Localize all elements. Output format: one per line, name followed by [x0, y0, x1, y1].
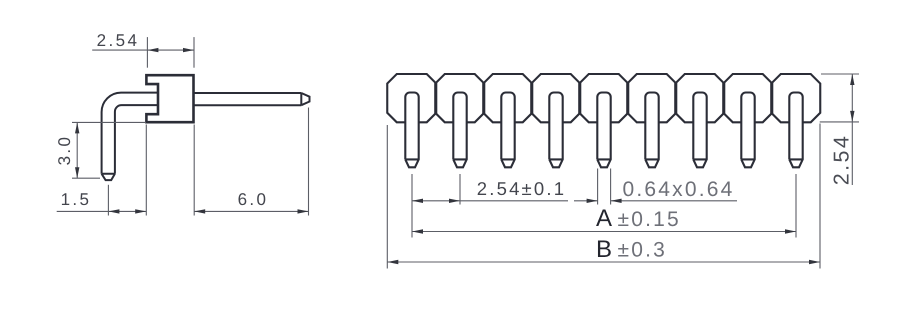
pin 4 [549, 93, 562, 168]
dimension line A [412, 231, 796, 233]
arrow A right [785, 229, 796, 233]
extension line: body left (top dim) [146, 37, 148, 68]
insulator octagon position 6 [627, 74, 676, 122]
pin header plastic body (side view) [146, 75, 193, 122]
insulator octagon position 4 [531, 74, 580, 122]
arrow 2.54 left [147, 48, 158, 52]
extension line: pin 9 center [795, 174, 797, 238]
extension line: body left down [145, 125, 147, 216]
arrow height up [850, 74, 854, 85]
svg-text:2.54: 2.54 [97, 31, 140, 50]
dimension line 1.5 [57, 210, 147, 212]
arrow 2.54 right [183, 48, 194, 52]
insulator octagon position 5 [579, 74, 628, 122]
insulator octagon position 2 [435, 74, 484, 122]
dimension line B [387, 261, 820, 263]
arrow 0.64 left (points right) [587, 199, 598, 203]
svg-text:6.0: 6.0 [238, 190, 269, 209]
arrow B left [387, 260, 398, 264]
extension line: pin tip down [308, 108, 310, 216]
arrow height down [850, 111, 854, 122]
extension line: pin 1 center [411, 174, 413, 238]
svg-text:A: A [596, 205, 612, 232]
extension line: pin 5 left edge [597, 169, 599, 205]
extension line: body right down [193, 125, 195, 216]
extension line: row bottom (height dim) [820, 121, 859, 123]
pin 6 [645, 93, 658, 168]
svg-text:B: B [596, 236, 612, 263]
extension line: body right (top dim) [193, 37, 195, 68]
arrow 0.64 right (points left) [611, 199, 622, 203]
arrow pitch right [449, 199, 460, 203]
pin 1 [405, 93, 418, 168]
dimension line 2.54 height (vertical) [851, 74, 853, 185]
arrow 1.5 right [135, 209, 146, 213]
arrow 6.0 right [298, 209, 309, 213]
extension line: pin centerline down [107, 185, 109, 216]
extension line: body bottom level (3.0 dim top ref) [72, 121, 146, 123]
arrow 3.0 down [75, 167, 79, 178]
pin 5 [597, 93, 610, 168]
arrow B right [809, 260, 820, 264]
pin 3 [501, 93, 514, 168]
extension line: row left edge [386, 125, 388, 269]
pin 8 [741, 93, 754, 168]
svg-text:3.0: 3.0 [55, 135, 74, 166]
insulator octagon position 8 [723, 74, 772, 122]
arrow 1.5 left [108, 209, 119, 213]
pin 7 [693, 93, 706, 168]
extension line: pin 2 center [459, 174, 461, 205]
dimension line 2.54 (top) [92, 49, 194, 51]
extension line: row right edge [819, 124, 821, 269]
arrow pitch left [412, 199, 423, 203]
insulator octagon position 3 [483, 74, 532, 122]
bent pin lead (left leg) [102, 93, 158, 181]
insulator octagon position 1 [387, 74, 436, 122]
extension line: pin tip level (3.0 dim bottom ref) [72, 177, 100, 179]
arrow 6.0 left [194, 209, 205, 213]
pin 2 [453, 93, 466, 168]
svg-text:±0.15: ±0.15 [618, 208, 681, 231]
dimension line 3.0 (vertical) [76, 122, 78, 178]
arrow A left [412, 229, 423, 233]
insulator octagon position 9 [771, 74, 820, 122]
dimension line 0.64 right (leader) [611, 200, 737, 202]
svg-text:0.64x0.64: 0.64x0.64 [622, 178, 734, 201]
dimension line 0.64 left [574, 200, 598, 202]
dimension line 2.54±0.1 (pitch) [412, 200, 568, 202]
insulator octagon position 7 [675, 74, 724, 122]
svg-text:2.54±0.1: 2.54±0.1 [477, 178, 566, 199]
svg-text:±0.3: ±0.3 [618, 239, 668, 262]
svg-text:1.5: 1.5 [61, 190, 92, 209]
extension line: row top (height dim) [821, 73, 859, 75]
dimension line 6.0 [194, 210, 308, 212]
pin 9 [789, 93, 802, 168]
svg-text:2.54: 2.54 [830, 134, 854, 185]
arrow 3.0 up [75, 122, 79, 133]
horizontal pin lead (right leg) [194, 93, 310, 105]
extension line: pin 5 right edge [610, 169, 612, 205]
